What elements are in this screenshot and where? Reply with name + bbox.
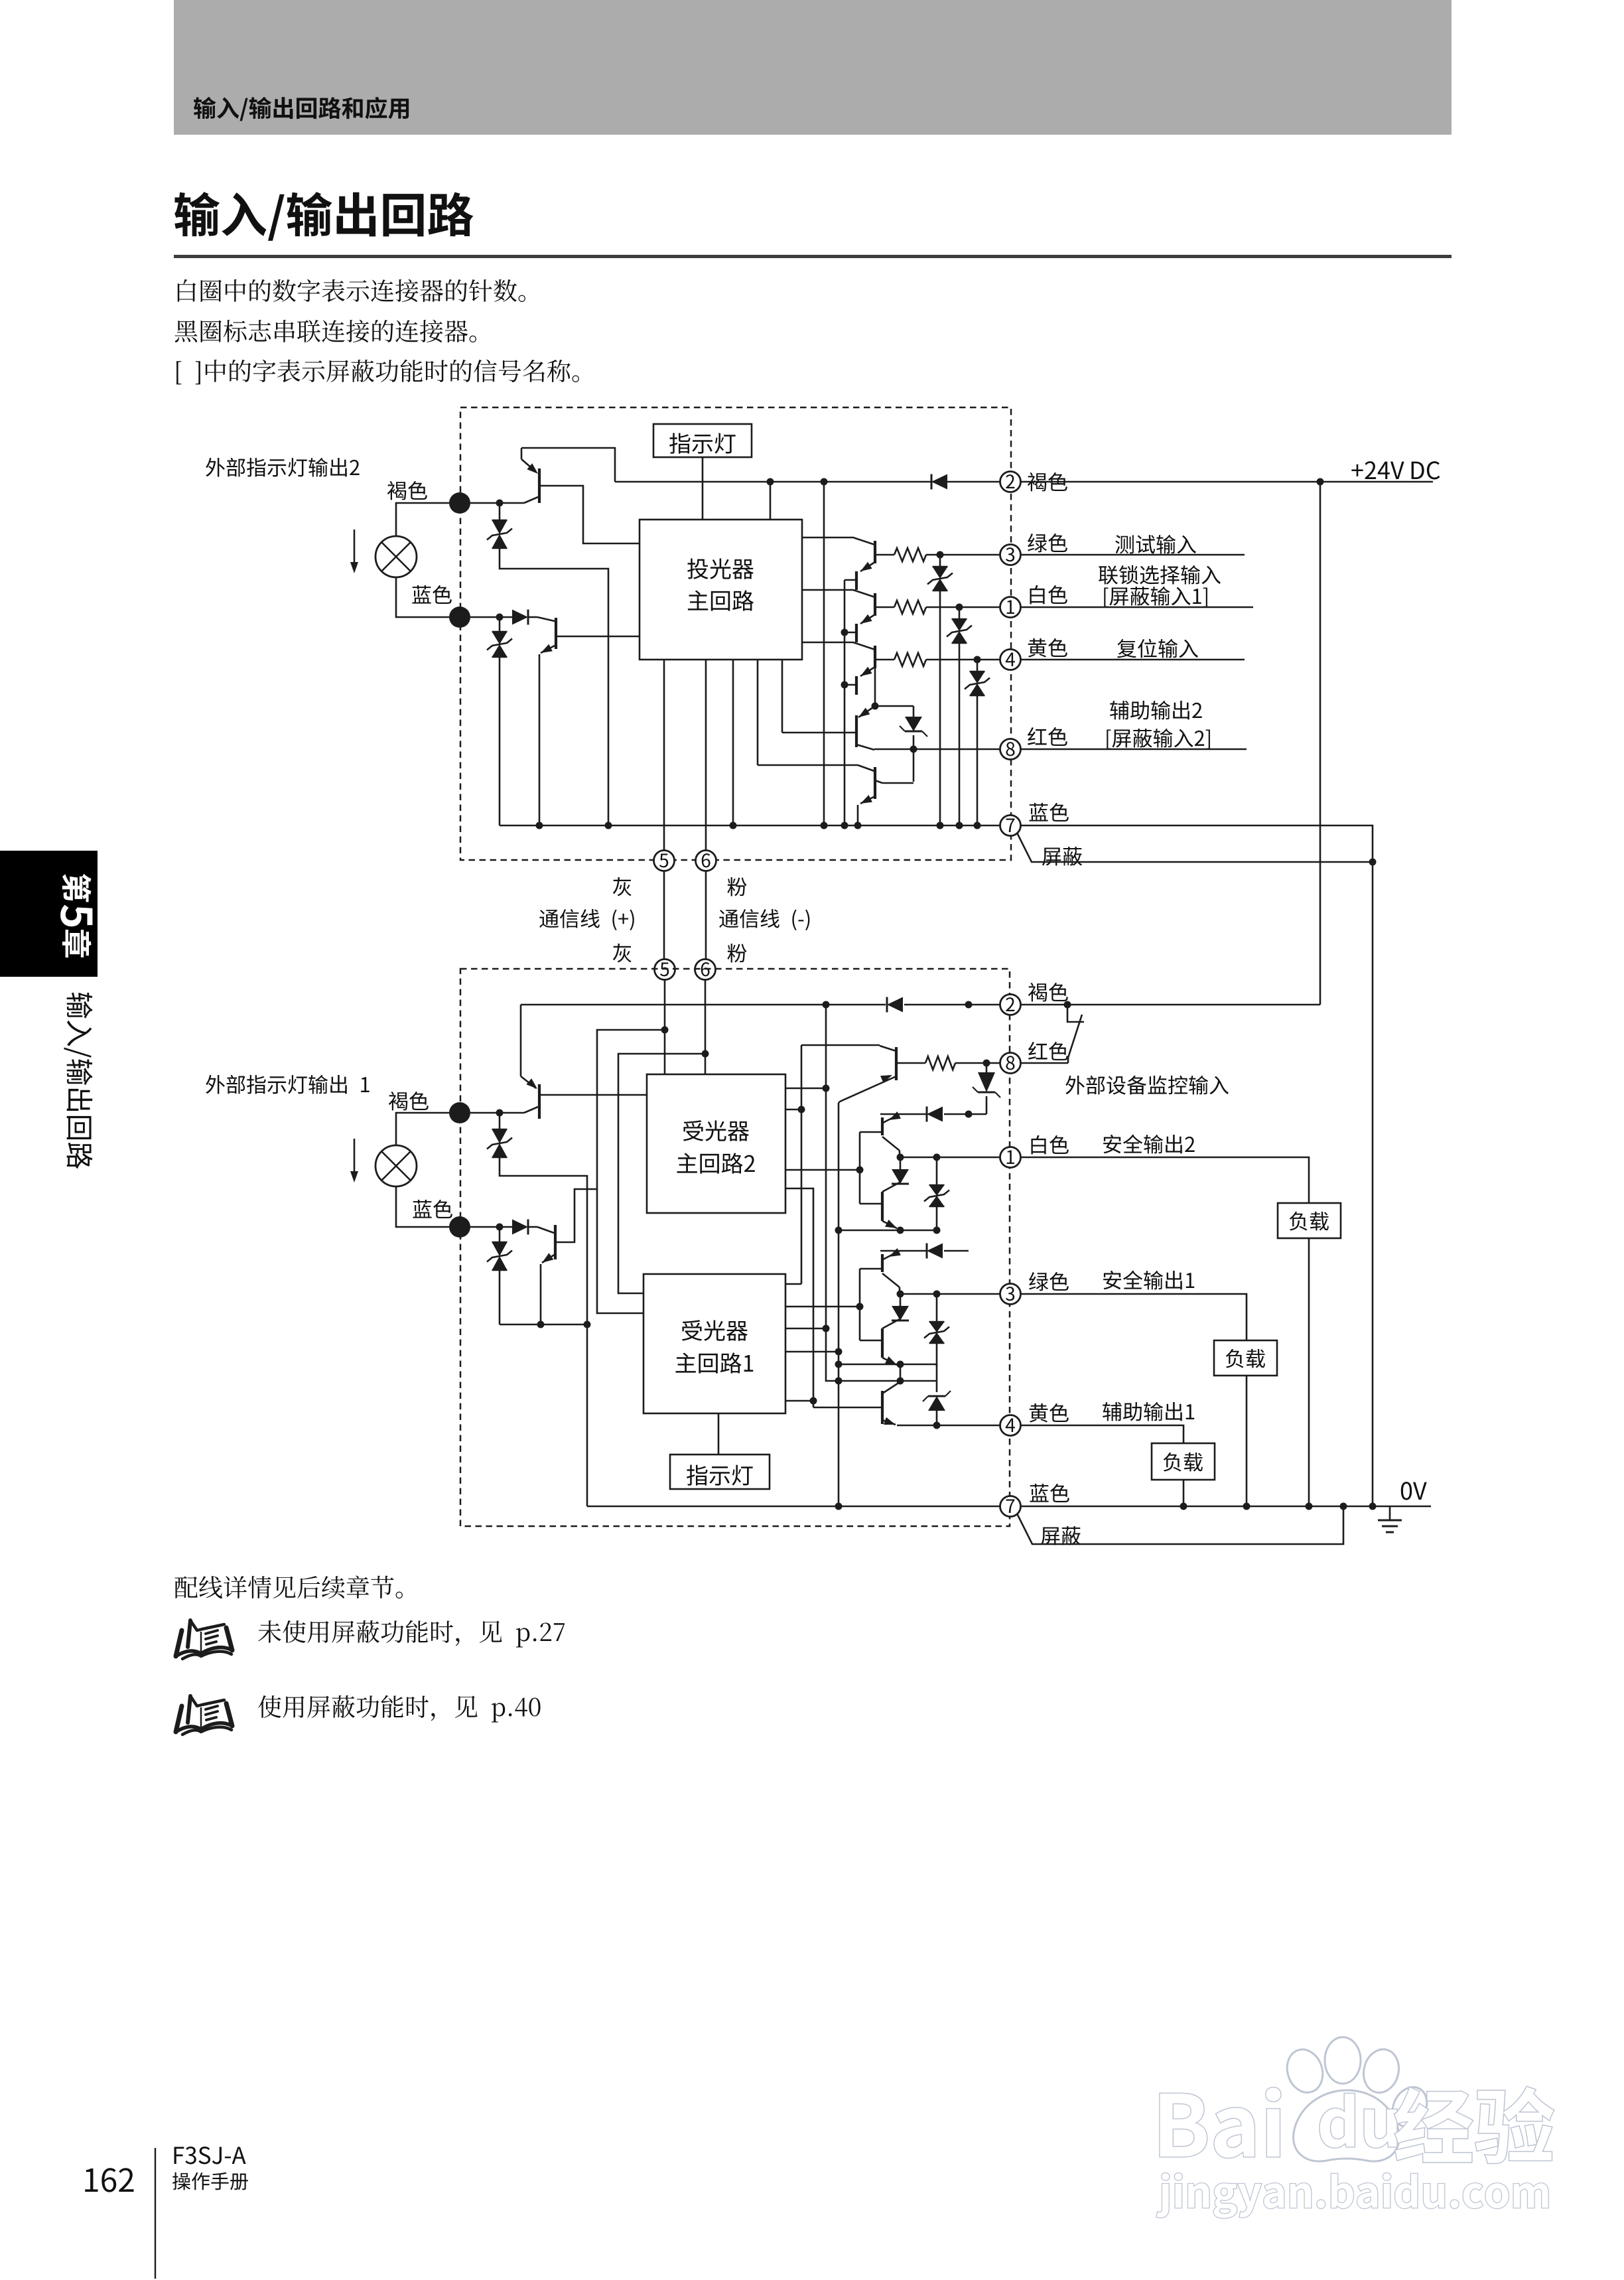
connector pin 8 (receiver) (1000, 1053, 1021, 1074)
intro line 2 (175, 320, 476, 342)
direction arrow (lamp 2) (354, 530, 356, 564)
node brown dot (ext indicator 2) (449, 492, 470, 514)
connector pin 7 (emitter) (1000, 816, 1021, 836)
footer rule (155, 2148, 156, 2279)
label 屏蔽 (emitter) (1042, 847, 1082, 866)
node zener tap Z1 (496, 500, 504, 507)
wire rail tap to box top (770, 482, 772, 520)
wire box1 pin to V2 (785, 1328, 826, 1330)
lamp L2 symbol (375, 536, 417, 577)
receiver main circuit box 受光器主回路2 (647, 1074, 785, 1213)
wire comm + into boxes (664, 980, 666, 1074)
label 灰 lower (613, 944, 632, 963)
book icon 2 (176, 1696, 232, 1735)
label 蓝色 receiver pin7 (1030, 1484, 1069, 1502)
label 复位输入 (1117, 639, 1198, 658)
wire Q8 base to box2 (539, 1094, 647, 1096)
label 0V (1401, 1482, 1427, 1500)
watermark 经验 (1394, 2087, 1554, 2163)
wire row to pin 1 (926, 606, 1000, 608)
transistor Qu (SO1) (883, 1251, 900, 1259)
wire Q1 collector from brown dot (470, 502, 524, 504)
transistor Q4 (input row pin1 driver) (802, 590, 875, 597)
resistor R1 (894, 601, 926, 614)
label 外部设备监控输入 (1065, 1076, 1229, 1095)
wire comm line + between blocks (663, 871, 665, 960)
label 褐色 pin2 (1028, 472, 1067, 492)
connector pin 2 (emitter) (1000, 472, 1021, 492)
header gray band (174, 0, 1452, 135)
diode D3 (reverse protection, receiver pin2) (887, 997, 903, 1013)
wire box1 pin to V1 (785, 1283, 801, 1285)
footer model F3SJ-A (174, 2147, 246, 2165)
transistor Q9 (receiver lamp driver lower) (537, 1227, 554, 1233)
chapter tab text 第5章 (60, 874, 92, 958)
base rail (SO2) (859, 1132, 861, 1204)
transistor Ql (SO1) (881, 1328, 884, 1358)
connector pin 6 (receiver) (695, 960, 716, 980)
label 黄色 receiver (1030, 1403, 1069, 1423)
watermark Baidu (1160, 2088, 1281, 2158)
label [屏蔽输入2] (1107, 729, 1210, 749)
wire pin3 signal line (1021, 554, 1245, 556)
wire rail tap down right of box (823, 482, 825, 825)
zener Z3 (TVS) (499, 1113, 501, 1129)
label 外部指示灯输出2 (206, 458, 359, 477)
label 联锁选择输入 (1099, 565, 1221, 585)
intro line 1 (178, 279, 525, 302)
watermark du (1320, 2094, 1397, 2147)
transistor Q4b (row pin1 pre-driver) (855, 624, 858, 642)
wire blue dot to diode D1 (470, 616, 500, 618)
wire box1 pin to V3 (785, 1351, 839, 1353)
receiver unit dashed enclosure (460, 969, 1010, 1526)
label 粉 lower (727, 944, 746, 962)
wire shield (receiver) (1017, 1506, 1343, 1544)
diode D (SO2) (927, 1107, 943, 1122)
transistor Q10 (EDM input) (895, 1047, 898, 1080)
connector pin 5 (emitter) (654, 851, 675, 871)
wire +24V rail (emitter) (615, 481, 1000, 483)
wire box2 pin to V2 (785, 1088, 826, 1090)
label 粉 upper (727, 877, 746, 896)
diode D4 (series, lamp 1) (500, 1226, 512, 1228)
wire base rail (rows common) (844, 580, 846, 825)
zener Zp (SO2) (TVS) (936, 1157, 938, 1185)
diode D2 (reverse protection, pin2) (931, 474, 947, 490)
intro line 3 (176, 360, 579, 385)
book icon 1 (176, 1620, 232, 1659)
wire V1 (aux1 collector rail) (801, 1045, 803, 1284)
label 红色 receiver pin8 (1028, 1042, 1068, 1060)
connector pin 2 (receiver) (1000, 995, 1021, 1015)
label 褐色 receiver pin2 (1028, 983, 1068, 1002)
wire Q10 collector rail (801, 1044, 880, 1046)
wire aux2 to pin8 (874, 748, 1000, 750)
wire V3 rail (838, 1103, 840, 1506)
node blue dot (ext indicator 2) (449, 606, 470, 628)
label 辅助输出1 (1103, 1402, 1194, 1421)
wire Q2 base to main box (556, 636, 640, 638)
title rule (174, 255, 1452, 258)
wire row to pin 3 (926, 554, 1000, 556)
wire box2 pin to V1 (785, 1109, 801, 1111)
header text 输入/输出回路和应用 (194, 97, 409, 121)
output line (SO2) (900, 1157, 1000, 1159)
receiver main circuit box 受光器主回路1 (643, 1274, 785, 1413)
wire zener row join (500, 1324, 587, 1326)
node zener tap Z2 (496, 614, 504, 621)
wire R8 to pin8 (955, 1062, 1000, 1064)
wire pin4 to load3 (1021, 1425, 1184, 1443)
wire rail connector (900, 1364, 902, 1381)
diode D1 (series, lamp 2 blue) (500, 616, 512, 618)
wire +24V down to receiver (1319, 482, 1321, 1005)
wire Q2 emitter to common bus (541, 645, 556, 653)
label +24V DC (1351, 461, 1404, 479)
wire pin2 right to +24V riser (1021, 1004, 1320, 1006)
emitter main circuit box 投光器主回路 (640, 520, 802, 660)
wire Q1 base to main box (539, 486, 640, 543)
watermark jingyan.baidu.com (1157, 2173, 1548, 2218)
label 褐色 (ext lamp 2 brown) (387, 481, 427, 500)
wire Q1 emitter rail to +24V (521, 448, 615, 482)
output line (SO1) (900, 1293, 1000, 1295)
label 通信线 (-) (719, 909, 809, 930)
watermark paw (1282, 2037, 1434, 2161)
connector pin 3 (emitter) (1000, 545, 1021, 565)
connector pin 4 (receiver) (1000, 1415, 1021, 1436)
transistor Q11 (aux output 1) (881, 1391, 884, 1424)
transistor Q7 (aux output 2 lower) (758, 764, 858, 766)
wire pin1 signal line (1021, 606, 1253, 608)
wire box1 to indicator (718, 1413, 720, 1455)
label 屏蔽 (receiver) (1041, 1526, 1081, 1545)
wire comm - into boxes (705, 980, 707, 1074)
wire box pin to base rail (SO2) (785, 1169, 860, 1171)
label [屏蔽输入1] (1104, 587, 1207, 607)
load box 负载 (SO1) (1214, 1340, 1277, 1376)
wire pin4 signal line (1021, 659, 1245, 661)
transistor Q3b (row pin3 pre-driver) (855, 571, 858, 590)
label 辅助输出2 (1110, 701, 1202, 720)
label 白色 receiver (1031, 1135, 1068, 1155)
sidebar text 输入/输出回路 (64, 993, 92, 1169)
diode Dp (SO1) (900, 1294, 902, 1306)
emitter unit dashed enclosure (460, 407, 1011, 860)
transistor Q8 (receiver lamp driver upper) (520, 1005, 522, 1076)
label 测试输入 (1115, 535, 1196, 554)
diode D (SO1) (927, 1244, 943, 1259)
wire box pin to base rail (SO1) (785, 1306, 860, 1308)
wire comm line - between blocks (705, 871, 707, 960)
connector pin 5 (receiver) (655, 960, 675, 980)
connector pin 1 (emitter) (1000, 597, 1021, 618)
label 通信线 (+) (539, 909, 634, 930)
label 黄色 pin4 (1028, 638, 1067, 658)
wire EDM diode rail (SO1) (880, 1250, 927, 1252)
load box 负载 (AUX1) (1152, 1443, 1215, 1480)
node blue dot (ext indicator 1) (449, 1216, 470, 1238)
indicator box 指示灯 (receiver) (670, 1455, 770, 1489)
zener Z pin1 (TVS) (959, 607, 961, 619)
wire lamp1 bottom to blue dot (396, 1186, 449, 1227)
chapter tab block (0, 851, 98, 977)
label 红色 pin8 (1028, 727, 1067, 746)
transistor Qu (SO2) (883, 1114, 900, 1123)
footer 操作手册 (172, 2173, 248, 2190)
EDM relay contact (1067, 1005, 1084, 1022)
wire zener drop SO1 (936, 1364, 938, 1381)
zener Zp (SO1) (TVS) (936, 1294, 938, 1322)
ground symbol (1389, 1506, 1391, 1520)
label 蓝色 (ext lamp 2 blue) (412, 585, 451, 604)
wire pin3 to load1 (1021, 1294, 1247, 1340)
wire dot to lamp 1 (396, 1113, 449, 1145)
wire main box pins down (663, 660, 665, 850)
label 绿色 receiver (1029, 1272, 1069, 1291)
transistor Q3 (input row pin3 driver) (802, 537, 875, 545)
wire 0V common bus (emitter) (500, 825, 1000, 827)
wire load3 to 0V (1183, 1480, 1185, 1506)
label 蓝色 (ext lamp 1) (413, 1200, 452, 1218)
resistor R4 (894, 653, 926, 666)
direction arrow (lamp 1) (354, 1139, 356, 1173)
connector pin 4 (emitter) (1000, 650, 1021, 670)
page number 162 (85, 2168, 133, 2192)
label 外部指示灯输出 1 (206, 1075, 370, 1094)
resistor R8 (EDM) (925, 1056, 955, 1070)
wire dot to lamp (396, 503, 449, 536)
reference text p.40 (258, 1695, 540, 1723)
wire blue+shield down to 0V (1372, 862, 1374, 1506)
label 灰 upper (613, 877, 632, 896)
wire 0V line (1021, 1506, 1431, 1508)
connector pin 7 (receiver) (1000, 1496, 1021, 1517)
wire Q8 collector from brown dot 1 (470, 1112, 524, 1114)
wire aux1 to pin4 (937, 1425, 1000, 1427)
zener Z8 (aux output 2) (875, 705, 913, 707)
zener Z pin3 (TVS) (939, 555, 941, 567)
diode Dp (SO2) (900, 1157, 902, 1169)
transistor Q5b (row pin4 pre-driver) (855, 676, 858, 695)
wire SO2 bottom rail (839, 1230, 937, 1232)
wire EDM diode rail (SO2) (880, 1113, 927, 1115)
transistor Q6 (aux output 2 upper) (874, 668, 876, 706)
transistor Ql (SO2) (881, 1192, 884, 1221)
base rail (SO1) (859, 1269, 861, 1340)
label 褐色 (ext lamp 1) (389, 1092, 429, 1111)
wire Q9 base riser (555, 1189, 597, 1242)
zener Z4 (TVS) (499, 1227, 501, 1242)
wire V4 rail (box2 to aux1 base) (785, 1188, 813, 1407)
wire blue dot 1 to diode D4 (470, 1226, 500, 1228)
connector pin 1 (receiver) (1000, 1147, 1021, 1168)
reference text p.27 (258, 1620, 565, 1648)
zener Z pin4 (TVS) (977, 660, 979, 672)
wire SO1 bottom rail (839, 1364, 937, 1366)
wire load1 to 0V (1246, 1376, 1248, 1506)
transistor Q2 (emitter lamp driver lower) (537, 617, 555, 621)
wire row to pin 4 (926, 659, 1000, 661)
wire pin1 to load2 (1021, 1157, 1309, 1203)
label 白色 pin1 (1030, 585, 1067, 605)
indicator box 指示灯 (emitter) (653, 424, 752, 457)
connector pin 3 (receiver) (1000, 1284, 1021, 1305)
wire receiver 0V bus (587, 1506, 1000, 1508)
wire load2 to 0V (1308, 1238, 1310, 1506)
node brown dot (ext indicator 1) (449, 1102, 470, 1123)
wire pin8 stub (1021, 1062, 1068, 1064)
node zener tap Z3 (496, 1109, 504, 1117)
zener Z6 (aux output 1) (936, 1381, 938, 1392)
wire pin7 blue to junction (1021, 825, 1373, 862)
wire pin8 signal line (1021, 748, 1247, 750)
zener Z2 (TVS) (499, 617, 501, 632)
zener Z1 (TVS) (499, 503, 501, 520)
page title 输入/输出回路 (174, 192, 473, 241)
wire indicator to main circuit (702, 457, 704, 520)
transistor Q5 (input row pin4 driver) (802, 642, 875, 650)
note 配线详情见后续章节。 (174, 1575, 402, 1599)
wire box1 pin to V4 (785, 1400, 813, 1402)
zener Z5 (EDM) (986, 1063, 988, 1072)
wire V2 rail (826, 1005, 937, 1381)
label 安全输出1 (1103, 1271, 1194, 1290)
transistor Q1 (emitter lamp driver upper) (521, 448, 523, 459)
label 蓝色 pin7 (1029, 803, 1068, 821)
wire lamp bottom to blue dot (396, 577, 449, 617)
connector pin 8 (emitter) (1000, 739, 1021, 760)
resistor R3 (894, 548, 926, 561)
load box 负载 (SO2) (1278, 1203, 1341, 1238)
label 绿色 pin3 (1028, 534, 1067, 553)
wire pin2 to +24V DC (1021, 481, 1433, 483)
label 安全输出2 (1103, 1135, 1195, 1154)
connector pin 6 (emitter) (696, 851, 716, 871)
wire shield (emitter) (1017, 833, 1373, 862)
wire receiver +24 rail (521, 1004, 886, 1006)
lamp L1 symbol (375, 1145, 417, 1186)
wire Q9 emitter down (542, 1254, 555, 1263)
